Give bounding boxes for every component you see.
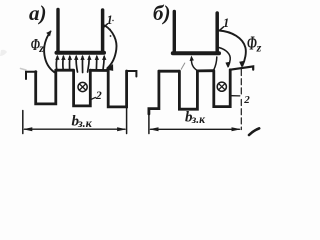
slot 2 (fig b)	[179, 71, 197, 109]
speck dots near 1	[109, 29, 111, 31]
armature profile (fig a): left surface with end tick	[26, 72, 36, 79]
svg-text:з.к: з.к	[191, 114, 206, 126]
right extension line (fig a)	[126, 107, 128, 134]
faint pencil mark	[21, 69, 27, 71]
svg-text:2: 2	[95, 88, 102, 102]
core A right bar	[101, 10, 105, 52]
dashed axis / extension line (fig b)	[240, 70, 242, 130]
dim arrow left (fig a)	[23, 127, 33, 131]
slot 2 with conductor (fig a)	[74, 70, 91, 106]
arrowhead right arc (fig a)	[106, 63, 114, 71]
core B right bar	[215, 13, 219, 53]
tooth 1 top (fig a)	[56, 69, 73, 72]
smudge top-left	[0, 50, 7, 56]
left extension line (fig a)	[22, 111, 24, 134]
conductor circle with cross (fig b)	[217, 82, 226, 91]
tooth 2 top (fig a)	[90, 69, 107, 72]
svg-text:з.к: з.к	[77, 116, 93, 130]
conductor circle with cross (fig a)	[78, 82, 87, 91]
right surface with end tick (fig a)	[127, 71, 137, 77]
arrowhead left arc (fig a)	[46, 30, 52, 37]
svg-text:2: 2	[243, 94, 250, 106]
slot 1 (fig a)	[36, 70, 56, 104]
dim arrow right (fig a)	[117, 127, 127, 131]
core A bottom bar	[57, 51, 105, 55]
stray pen slash bottom-right	[249, 128, 259, 135]
air-gap arrows (fig a)	[56, 57, 104, 73]
svg-text:а): а)	[29, 1, 47, 25]
core B left bar	[173, 12, 176, 53]
leader for 1 (fig a)	[104, 24, 108, 28]
left flux arc (fig a)	[44, 32, 54, 73]
dim arrow right (fig b)	[232, 127, 242, 131]
right flux arc (fig a)	[105, 26, 117, 69]
core A left bar	[56, 10, 59, 53]
inner right flux arc (fig b)	[219, 48, 230, 67]
svg-text:1: 1	[223, 16, 229, 30]
svg-text:1: 1	[107, 13, 113, 27]
dimension line (fig b)	[151, 128, 240, 130]
leader for 2 (fig b)	[231, 95, 239, 97]
dimension line (fig a)	[25, 128, 126, 130]
leader for 1 (fig b)	[219, 27, 224, 31]
svg-text:б): б)	[153, 1, 170, 25]
arrowhead inner arc (fig b)	[225, 62, 230, 68]
gap arrow left (fig b)	[191, 58, 197, 71]
slot 3 (fig a)	[108, 71, 126, 107]
arrowhead outer arc (fig b)	[239, 61, 245, 68]
faint short arrow (fig b)	[181, 63, 185, 69]
leader for 2 (fig a)	[91, 97, 96, 99]
core B bottom bar	[173, 51, 219, 55]
tooth 2 top (fig b)	[197, 69, 213, 72]
svg-text:z: z	[256, 41, 262, 55]
right surface with end tick (fig b)	[230, 66, 253, 69]
air-gap arrowheads (fig a)	[55, 55, 106, 60]
outer flux arc Phi-z (fig b)	[219, 31, 246, 66]
tooth 1 top (fig b)	[159, 70, 179, 73]
left extension line (fig b)	[148, 114, 150, 134]
armature profile (fig b): left bottom with tick	[149, 71, 159, 114]
dim arrow left (fig b)	[149, 127, 159, 131]
gap line from slot corner to core corner (fig b)	[214, 57, 217, 70]
conductor slot (fig b)	[214, 70, 230, 107]
